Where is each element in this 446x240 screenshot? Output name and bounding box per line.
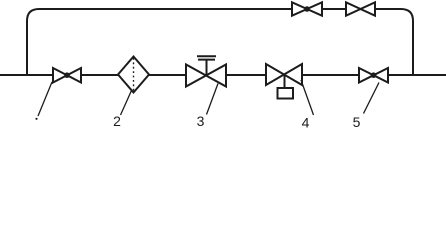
leader for valve 5	[364, 83, 380, 114]
leader for filter 2	[121, 91, 132, 116]
svg-text:5: 5	[353, 114, 361, 130]
valve 1 (globe valve with dot)	[53, 68, 81, 83]
wire: main line between valve 3 and valve 4	[226, 74, 266, 76]
svg-text:4: 4	[302, 115, 310, 131]
valve 3 (gate valve with T-bar bonnet)	[186, 56, 226, 86]
wire: main line between valve 4 and valve 5	[302, 74, 359, 76]
wire: bypass loop left riser, top run and right riser	[27, 9, 413, 75]
wire: main line right segment	[388, 74, 446, 76]
svg-text:3: 3	[197, 113, 205, 129]
wire: main line left segment	[0, 74, 53, 76]
valve (bypass, plain)	[346, 2, 375, 15]
valve 4 (valve with solenoid box below)	[266, 64, 302, 99]
filter 2 (diamond strainer with dotted diagonal)	[118, 57, 149, 93]
svg-text:2: 2	[113, 113, 121, 129]
valve 5 (globe valve with dot)	[359, 68, 388, 83]
wire: main line between valve 1 and filter 2	[81, 74, 118, 76]
wire: main line between filter 2 and valve 3	[149, 74, 186, 76]
valve (bypass, with dot)	[292, 2, 322, 15]
leader for valve 4	[301, 80, 314, 115]
leader for valve 3	[207, 84, 219, 115]
leader for valve 1	[38, 82, 52, 116]
